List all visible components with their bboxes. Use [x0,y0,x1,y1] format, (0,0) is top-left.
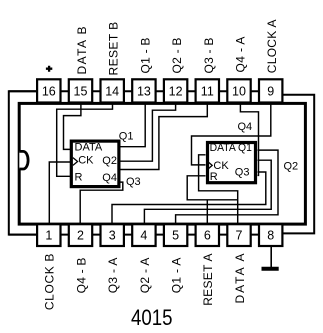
notch orientation mark [19,151,28,169]
svg-text:2: 2 [77,229,84,243]
svg-text:15: 15 [74,85,88,99]
svg-text:Q4: Q4 [102,172,117,184]
svg-text:Q2: Q2 [284,161,299,173]
pin 3 box [101,224,124,246]
svg-text:Q1: Q1 [119,131,134,143]
svg-text:Q4 - A: Q4 - A [234,37,248,73]
svg-text:14: 14 [105,85,119,99]
svg-text:3: 3 [109,229,116,243]
svg-text:CLOCK B: CLOCK B [43,254,57,311]
pin 13 box [132,79,155,102]
pin 8 box [259,224,282,246]
svg-text:8: 8 [267,229,274,243]
wire RESET A net: register A R input run [187,176,238,200]
wire lead ring right side (pin 9 to pin 8 wrap-around) [282,95,314,234]
wire Q4-A net: register A Q4 output to pin 10 [240,103,258,176]
svg-text:R: R [75,171,83,183]
svg-text:6: 6 [204,229,211,243]
svg-text:Q4: Q4 [238,121,253,133]
svg-text:DATA Q1: DATA Q1 [210,142,252,154]
wire lead ring left side (pin 16 to pin 1 wrap-around) [9,91,49,234]
wire CLOCK B net: register B CK input to pin 1 [49,162,70,225]
pin 7 box [227,224,250,246]
pin 9 box [259,79,282,102]
pin 2 box [69,224,92,246]
wire Q2-B net: register B Q2 output to pin 12 [120,103,176,162]
pin 5 box [164,224,187,246]
pin 16 box [37,79,60,102]
svg-text:Q2: Q2 [102,155,117,167]
pin 1 box [37,224,60,246]
svg-text:R: R [210,171,218,183]
svg-text:7: 7 [236,229,243,243]
svg-text:Q2 - B: Q2 - B [170,38,184,74]
svg-text:Q3: Q3 [126,176,141,188]
pin 10 box [227,79,250,102]
svg-text:4015: 4015 [131,305,173,330]
pin 6 box [196,224,219,246]
svg-text:CLOCK A: CLOCK A [265,19,279,73]
svg-text:RESET B: RESET B [107,22,121,76]
clock wedge register B CK [73,158,78,166]
svg-text:12: 12 [169,85,183,99]
svg-text:13: 13 [137,85,151,99]
svg-text:16: 16 [42,85,56,99]
svg-text:Q3: Q3 [235,167,250,179]
svg-text:Q3 - B: Q3 - B [202,38,216,74]
wire RESET B net: pin 14 to register B R input [57,103,113,177]
svg-text:DATA: DATA [75,142,103,154]
wire RESET A net: pin 6 drop [206,200,208,225]
wire Q1-B net: register B Q1 output to pin 13 [120,103,145,147]
svg-text:1: 1 [45,229,52,243]
svg-text:Q3 - A: Q3 - A [106,258,120,294]
wire lead ring bottom rail behind pins 1-8 [9,234,259,236]
ground stem at pin 8 [270,246,272,267]
svg-text:5: 5 [172,229,179,243]
register B block (shift register B) [71,141,119,187]
wire DATA B net: pin 15 to register B DATA input [64,103,81,150]
clock wedge register A CK [208,162,212,170]
wire Q1-A net: register A Q1 output to pin 5 [176,150,278,225]
wire Q3-B net: register B Q3 output to pin 11 [120,103,207,170]
wire Q4-B net: register B Q4 output to pin 2 [80,182,123,225]
ground bar [262,267,279,271]
wire Q2-A net: register A Q2 output to pin 4 [144,160,271,225]
svg-text:Q2 - A: Q2 - A [138,258,152,294]
svg-text:CK: CK [78,154,94,166]
pin 15 box [69,79,92,102]
wire DATA A net: register A DATA input to pin 7 [199,155,238,225]
pin 4 box [132,224,155,246]
svg-text:11: 11 [201,85,214,99]
wire lead ring top rail behind pins 16-9 [9,90,261,92]
register A block (shift register A) [208,143,256,183]
svg-text:Q4 - B: Q4 - B [74,258,88,294]
svg-text:Q1 - A: Q1 - A [170,258,184,294]
svg-text:4: 4 [140,229,147,243]
svg-text:DATA A: DATA A [233,254,247,304]
svg-text:Q1 - B: Q1 - B [138,38,152,74]
wire CLOCK A net: pin 9 to register A CK input [192,103,271,165]
svg-text:DATA B: DATA B [75,27,89,75]
IC body U1 4015 outline [19,103,305,224]
svg-text:10: 10 [232,85,246,99]
svg-text:9: 9 [267,85,274,99]
pin 14 box [101,79,124,102]
pin 12 box [164,79,187,102]
pin 11 box [196,79,219,102]
svg-text:RESET A: RESET A [201,254,215,306]
power plus symbol at pin 16 [46,66,52,72]
wire Q3-A net: register A Q3 output to pin 3 [112,172,266,225]
